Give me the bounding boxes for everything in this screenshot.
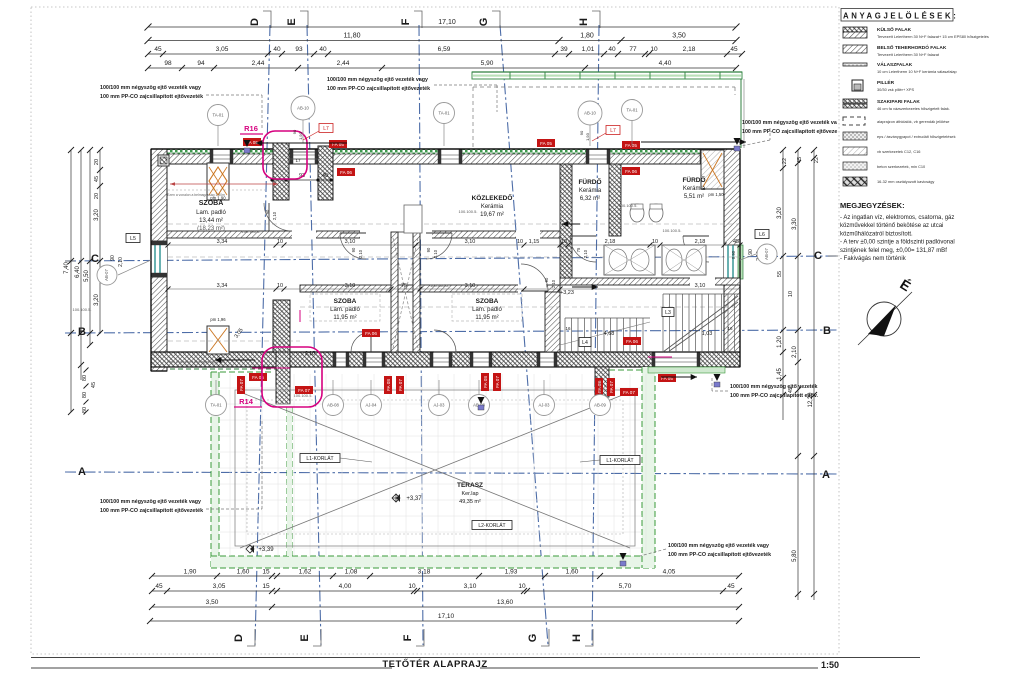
svg-text:39: 39	[560, 46, 568, 53]
svg-text:beton szerkezetek, min C10: beton szerkezetek, min C10	[877, 164, 926, 169]
svg-text:10: 10	[277, 239, 283, 245]
door arc shaft right	[426, 233, 452, 259]
svg-text:L5: L5	[130, 236, 136, 242]
svg-text:3,50: 3,50	[206, 599, 219, 606]
svg-text:közművekkel történő bekötése: közművekkel történő bekötése az utcai	[840, 223, 943, 229]
svg-text:FA 07: FA 07	[609, 381, 614, 393]
svg-text:22: 22	[814, 157, 820, 163]
svg-text:L4: L4	[582, 340, 588, 346]
grid line F	[419, 25, 423, 645]
wall pier D (R16)	[273, 143, 289, 200]
svg-text:20: 20	[94, 193, 100, 199]
magenta small marks	[299, 310, 301, 322]
svg-text:90: 90	[426, 247, 431, 252]
svg-text:5,90: 5,90	[481, 60, 494, 67]
svg-text:90: 90	[265, 209, 270, 214]
svg-text:20: 20	[94, 159, 100, 165]
door arc shaft left	[340, 233, 366, 259]
svg-text:2,10: 2,10	[583, 249, 588, 258]
lower rooms top wall	[300, 285, 560, 292]
svg-text:100.100.5.: 100.100.5.	[73, 307, 92, 312]
svg-text:+3,23: +3,23	[560, 290, 574, 296]
bottom dimension rows	[152, 575, 739, 577]
terrace left green edge	[211, 372, 219, 568]
svg-text:közműhálózatról biztosított.: közműhálózatról biztosított.	[840, 231, 913, 237]
svg-text:75: 75	[401, 283, 407, 289]
label FA 05	[537, 139, 555, 147]
svg-text:1,93: 1,93	[585, 132, 590, 141]
legend item vb szerkezetek	[843, 147, 867, 155]
terrace right green edge	[642, 367, 655, 568]
svg-text:100 mm PP-CO zajcsillapított e: 100 mm PP-CO zajcsillapított ejtővezeték	[668, 552, 771, 558]
svg-text:80: 80	[82, 392, 88, 398]
svg-text:VÁLASZFALAK: VÁLASZFALAK	[877, 61, 913, 68]
svg-text:49,35 m²: 49,35 m²	[459, 499, 481, 505]
label FA 07	[493, 373, 501, 391]
label FA 06	[362, 329, 380, 337]
legend item valaszfalak	[843, 63, 867, 66]
svg-text:Lam. padló: Lam. padló	[196, 210, 226, 216]
svg-text:100.100.5.: 100.100.5.	[430, 283, 449, 288]
roof band right edge drop	[740, 79, 742, 148]
interior dims row 2	[168, 288, 740, 290]
svg-text:vb szerkezetek C12, C16: vb szerkezetek C12, C16	[877, 149, 920, 154]
bubble TA-01	[622, 100, 643, 121]
svg-text:H: H	[578, 18, 590, 26]
bubble AB-08	[469, 395, 490, 416]
svg-text:pm 1,50: pm 1,50	[708, 192, 724, 197]
svg-text:- Az ingatlan víz, ele: - Az ingatlan víz, elektromos, csatorna,…	[840, 215, 954, 221]
svg-text:H: H	[571, 634, 583, 642]
svg-text:2,10: 2,10	[433, 249, 438, 258]
right AB-07	[740, 254, 756, 260]
bubble AB-08	[323, 395, 344, 416]
left dimension chain	[70, 150, 72, 412]
label FA 05	[622, 141, 640, 149]
svg-text:30/30 zsk pillér+ XPS: 30/30 zsk pillér+ XPS	[877, 87, 914, 92]
title bar	[31, 657, 920, 659]
pier top right with X	[701, 150, 724, 189]
svg-text:FA 06: FA 06	[365, 331, 377, 336]
bubble AB-10	[578, 101, 602, 125]
svg-text:10: 10	[277, 283, 283, 289]
bubble TA-01	[434, 103, 455, 124]
label FA 08	[384, 376, 392, 394]
label L7	[319, 124, 333, 133]
grid line E	[307, 25, 321, 645]
label FA 07	[607, 378, 615, 396]
wall pier E	[318, 146, 333, 200]
svg-text:16: 16	[727, 326, 733, 331]
svg-text:10: 10	[561, 239, 567, 245]
label L2-KORLÁT	[472, 521, 512, 530]
svg-text:90: 90	[748, 249, 754, 255]
svg-text:FA 06: FA 06	[340, 170, 352, 175]
svg-text:TETŐTÉR ALAPRAJZ: TETŐTÉR ALAPRAJZ	[382, 658, 487, 670]
label L7	[606, 126, 620, 135]
roof dashed outline	[473, 86, 735, 88]
stairs flight 1	[564, 318, 566, 352]
bubble AJ-04	[361, 395, 382, 416]
level mark +3,39	[246, 545, 254, 553]
svg-text:AB-07: AB-07	[764, 248, 769, 260]
svg-text:- A terv ±0,00 szintje: - A terv ±0,00 szintje a földszinti padl…	[840, 240, 955, 246]
svg-text:+3,37: +3,37	[406, 496, 422, 502]
svg-text:TA-01: TA-01	[438, 111, 450, 116]
svg-text:3,10: 3,10	[464, 583, 477, 590]
svg-text:L6: L6	[759, 232, 765, 238]
svg-text:3,10: 3,10	[345, 283, 356, 289]
bubble AB-09	[590, 395, 611, 416]
legend item kulso falak	[843, 27, 867, 32]
svg-text:22: 22	[782, 158, 788, 164]
svg-text:L7: L7	[323, 126, 329, 132]
svg-text:FA 08: FA 08	[386, 379, 391, 391]
terrace diagonals X	[240, 392, 630, 548]
svg-text:4,05: 4,05	[663, 569, 676, 576]
label L5	[126, 234, 140, 243]
svg-text:80: 80	[82, 375, 88, 381]
door arc bathroom1	[570, 236, 596, 262]
svg-text:L1-KORLÁT: L1-KORLÁT	[306, 455, 333, 462]
legend item beton	[843, 162, 867, 170]
stair diagonals	[663, 296, 738, 352]
bubble leaders	[217, 126, 219, 146]
svg-text:6,32 m²: 6,32 m²	[580, 196, 600, 202]
svg-text:11,80: 11,80	[344, 33, 361, 40]
label FA 05	[243, 138, 261, 146]
svg-text:Tervezett Leiertherm 30 N+F fa: Tervezett Leiertherm 30 N+F falazat	[877, 52, 940, 57]
svg-text:1,45: 1,45	[777, 368, 783, 380]
bubble TA-01	[206, 395, 227, 416]
svg-text:R14: R14	[239, 397, 254, 406]
toilets	[630, 204, 644, 222]
svg-text:3,10: 3,10	[345, 239, 356, 245]
svg-text:AB-10: AB-10	[584, 111, 596, 116]
window right wall	[724, 245, 740, 279]
svg-text:1,60: 1,60	[566, 569, 579, 576]
room label SZOBA bottom 1	[310, 294, 380, 321]
svg-text:45: 45	[91, 382, 97, 388]
svg-text:6,59: 6,59	[438, 46, 451, 53]
svg-text:100 mm PP-CO zajcsillapított e: 100 mm PP-CO zajcsillapított ejtőv.	[730, 393, 818, 399]
window opening top wall	[438, 149, 462, 164]
svg-text:G: G	[478, 18, 490, 27]
svg-text:pm 1,96: pm 1,96	[210, 317, 226, 322]
svg-text:2,10: 2,10	[551, 279, 556, 288]
label FA 07	[295, 386, 313, 394]
bath fixture furdo2	[404, 205, 422, 233]
wall between FURDO rooms	[609, 164, 621, 236]
bubble TA-01	[208, 105, 229, 126]
svg-text:45: 45	[94, 176, 100, 182]
svg-text:1,93: 1,93	[298, 131, 303, 140]
svg-text:1,15: 1,15	[529, 239, 540, 245]
svg-text:KÖZLEKEDŐ: KÖZLEKEDŐ	[472, 193, 513, 202]
svg-text:1:50: 1:50	[821, 660, 839, 670]
red line	[170, 183, 278, 185]
shaft walls (F line)	[391, 232, 398, 352]
svg-text:AJ-03: AJ-03	[434, 403, 446, 408]
svg-text:1,20: 1,20	[777, 336, 783, 348]
R14 wall pier into terrace	[273, 300, 290, 352]
interior dims row 1	[168, 244, 740, 246]
door arc lower room left (terrace door)	[351, 332, 371, 352]
svg-text:40: 40	[608, 46, 616, 53]
opening bottom wall	[430, 352, 452, 367]
svg-text:2,44: 2,44	[337, 60, 350, 67]
svg-text:1,93: 1,93	[505, 569, 518, 576]
svg-text:16-32 mm osztályozott kavicság: 16-32 mm osztályozott kavicságy	[877, 179, 934, 184]
svg-text:1,90: 1,90	[184, 569, 197, 576]
svg-text:100.100.5.: 100.100.5.	[242, 229, 261, 234]
svg-text:1,03: 1,03	[702, 331, 713, 337]
svg-text:10: 10	[652, 239, 658, 245]
svg-text:TA-01: TA-01	[626, 108, 638, 113]
svg-text:L3: L3	[665, 310, 671, 316]
legend item eps	[843, 132, 867, 140]
svg-text:AB-08: AB-08	[327, 403, 339, 408]
svg-text:1,62: 1,62	[299, 569, 312, 576]
fall direction arrows (ejtovezetek)	[244, 140, 251, 147]
label L3	[662, 308, 674, 317]
svg-text:Tervezett Leiertherm 30 N+F fa: Tervezett Leiertherm 30 N+F falazat+ 15 …	[877, 34, 989, 39]
opening bottom wall	[652, 352, 700, 367]
svg-text:Kerámia: Kerámia	[683, 186, 706, 192]
svg-text:AB-10: AB-10	[297, 106, 309, 111]
svg-text:90: 90	[110, 255, 116, 261]
svg-text:AB-07: AB-07	[104, 269, 109, 281]
svg-text:Lam. padló: Lam. padló	[330, 307, 360, 313]
svg-text:L1-KORLÁT: L1-KORLÁT	[606, 457, 633, 464]
wall between KOZLEKEDO and FURDO	[560, 164, 572, 278]
svg-text:2,10: 2,10	[358, 249, 363, 258]
label FA 06	[622, 167, 640, 175]
svg-text:10: 10	[408, 583, 416, 590]
svg-text:100/100 mm négyszög ejtő vezet: 100/100 mm négyszög ejtő vezeték vagy	[327, 77, 428, 83]
svg-text:3,34: 3,34	[217, 239, 228, 245]
exterior wall top	[151, 149, 740, 164]
door arc lower room right (terrace door)	[434, 330, 456, 352]
svg-text:- Fakivágás nem történik: - Fakivágás nem történik	[840, 256, 907, 262]
svg-text:SZOBA: SZOBA	[199, 200, 224, 207]
top dimension row 17,10	[148, 26, 736, 28]
svg-text:SZAKIPARI FALAK: SZAKIPARI FALAK	[877, 99, 920, 105]
svg-text:D: D	[249, 18, 261, 26]
grid line C	[65, 256, 838, 261]
svg-text:C: C	[814, 250, 822, 262]
svg-text:90: 90	[292, 129, 297, 134]
exterior wall right	[724, 149, 740, 367]
svg-text:3,05: 3,05	[213, 583, 226, 590]
svg-text:AJ-04: AJ-04	[366, 403, 378, 408]
svg-text:90: 90	[351, 247, 356, 252]
svg-text:B: B	[823, 325, 831, 337]
svg-text:16: 16	[565, 326, 571, 331]
svg-text:FÜRDŐ: FÜRDŐ	[682, 175, 705, 184]
svg-text:TERASZ: TERASZ	[457, 482, 483, 489]
wall right of stairs / szoba2	[545, 292, 560, 352]
svg-text:11,95 m²: 11,95 m²	[333, 315, 356, 321]
exterior wall bottom	[151, 352, 740, 367]
label FA 07	[620, 388, 638, 396]
svg-text:szintjének felel meg, ±0,00= 1: szintjének felel meg, ±0,00= 131,87 mBf	[840, 248, 947, 254]
svg-text:13,60: 13,60	[497, 599, 514, 606]
opening bottom wall	[470, 352, 492, 367]
terrace tile grid	[220, 374, 646, 556]
svg-text:1,01: 1,01	[582, 46, 595, 53]
svg-text:0,90: 0,90	[731, 250, 736, 259]
svg-text:E: E	[299, 634, 311, 641]
svg-text:7,40: 7,40	[64, 262, 70, 274]
svg-text:2,10: 2,10	[118, 257, 124, 267]
svg-text:45: 45	[730, 46, 738, 53]
legend item belso teherhordo falak	[843, 45, 867, 53]
R16 magenta highlight	[263, 131, 307, 179]
door arc szoba2	[521, 264, 548, 291]
svg-text:100/100 mm négyszög ejtő vezet: 100/100 mm négyszög ejtő vezeték vagy	[668, 543, 769, 549]
svg-text:R16: R16	[244, 124, 258, 133]
svg-text:2,10: 2,10	[792, 346, 798, 358]
bubble AJ-03	[534, 395, 555, 416]
svg-text:3,30: 3,30	[792, 218, 798, 230]
interior wall horizontal (corridor)	[167, 231, 572, 238]
lintel over window D-E	[290, 151, 318, 153]
shaft X	[393, 238, 418, 348]
svg-text:eps / ásványgyapot / extrudált: eps / ásványgyapot / extrudált hőszigete…	[877, 134, 956, 139]
svg-text:10: 10	[517, 239, 523, 245]
svg-text:3,20: 3,20	[94, 294, 100, 306]
svg-text:A: A	[78, 466, 86, 478]
svg-text:alaprajzon áthidalók, vb geren: alaprajzon áthidalók, vb gerendák jelölé…	[877, 119, 949, 124]
top dimension row detail	[148, 53, 742, 55]
svg-text:6,40: 6,40	[75, 266, 81, 278]
legend item piller	[852, 80, 863, 91]
fireplace top-left with orange X	[207, 163, 229, 200]
note leaders	[206, 94, 262, 96]
svg-text:FÜRDŐ: FÜRDŐ	[578, 177, 601, 186]
legend item athidalok	[843, 117, 865, 125]
svg-text:40: 40	[319, 46, 327, 53]
grid line A	[65, 472, 838, 474]
svg-text:FA 07: FA 07	[495, 376, 500, 388]
svg-text:100 mm PP-CO zajcsillapított e: 100 mm PP-CO zajcsillapított ejtőveze	[742, 129, 837, 135]
svg-text:90: 90	[544, 277, 549, 282]
svg-text:4,00: 4,00	[339, 583, 352, 590]
svg-text:90: 90	[579, 130, 584, 135]
svg-text:10: 10	[650, 46, 658, 53]
svg-text:L2-KORLÁT: L2-KORLÁT	[478, 522, 505, 529]
window opening top wall	[210, 149, 233, 164]
svg-text:3,20: 3,20	[777, 207, 783, 219]
opening bottom wall	[333, 352, 349, 367]
stairs flight 2	[662, 294, 664, 352]
sink counter 1	[604, 245, 655, 275]
label FA 07	[396, 376, 404, 394]
dashed guides	[168, 189, 265, 191]
svg-text:5,80: 5,80	[792, 550, 798, 562]
label L6	[755, 230, 769, 239]
svg-text:2,18: 2,18	[605, 239, 616, 245]
svg-text:45: 45	[154, 46, 162, 53]
svg-text:46 cm fa vázszerkezetes hőszig: 46 cm fa vázszerkezetes hőszigetelt fala…	[877, 106, 950, 111]
fireplace bottom-left with orange X	[207, 326, 229, 354]
label FA 06	[337, 168, 355, 176]
green sill below bottom wall left part	[170, 368, 290, 370]
label FA 07	[237, 376, 245, 394]
svg-text:FA 07: FA 07	[398, 379, 403, 391]
svg-text:FA 05: FA 05	[625, 143, 637, 148]
exterior wall left	[151, 149, 167, 371]
svg-text:SZOBA: SZOBA	[334, 298, 357, 305]
svg-text:(18,23 m²): (18,23 m²)	[197, 226, 225, 232]
svg-text:2,44: 2,44	[252, 60, 265, 67]
sink counter 2	[662, 245, 706, 275]
grid line H	[592, 25, 599, 645]
roof band top right (green strip)	[472, 72, 742, 79]
svg-text:13,44 m²: 13,44 m²	[199, 218, 223, 224]
svg-text:17,10: 17,10	[438, 613, 455, 620]
svg-text:2,18: 2,18	[683, 46, 696, 53]
svg-text:3,10: 3,10	[465, 239, 476, 245]
label L4	[579, 338, 591, 347]
window opening top wall	[700, 149, 724, 164]
page dotted border	[31, 7, 839, 654]
svg-text:Lam. padló: Lam. padló	[472, 307, 502, 313]
svg-text:TA-01: TA-01	[212, 113, 224, 118]
grid line D	[255, 25, 270, 645]
svg-text:3,20: 3,20	[94, 209, 100, 221]
svg-text:3,18: 3,18	[418, 569, 431, 576]
heavy outlines	[151, 148, 740, 150]
svg-text:Ker.lap: Ker.lap	[461, 491, 478, 497]
window opening top wall	[290, 149, 318, 164]
svg-text:100.100.5.: 100.100.5.	[619, 203, 638, 208]
svg-text:100 mm PP-CO zajcsillapított e: 100 mm PP-CO zajcsillapított ejtővezeték	[100, 508, 203, 514]
label L1-KORLÁT	[300, 454, 340, 463]
door arc corridor to left room	[264, 203, 292, 231]
bubble AJ-03	[429, 395, 450, 416]
label FA 08	[595, 378, 603, 396]
svg-text:4,68: 4,68	[604, 331, 615, 337]
window opening top wall	[586, 149, 610, 164]
svg-text:Kerámia: Kerámia	[579, 188, 602, 194]
svg-text:45: 45	[155, 583, 163, 590]
svg-text:2,10: 2,10	[272, 211, 277, 220]
svg-text:+3,39: +3,39	[258, 547, 274, 553]
right dimension chain	[782, 150, 784, 420]
top dimension row 98/94/2,44	[148, 67, 736, 69]
svg-text:80: 80	[82, 407, 88, 413]
svg-text:100/100 mm négyszög ejtő vezet: 100/100 mm négyszög ejtő vezeték	[730, 384, 817, 390]
bubble AB-10	[291, 96, 315, 120]
svg-text:FA 07: FA 07	[623, 390, 635, 395]
svg-text:FA 06: FA 06	[625, 169, 637, 174]
svg-text:100.100.5.: 100.100.5.	[459, 209, 478, 214]
svg-text:100/100 mm négyszög ejtő vezet: 100/100 mm négyszög ejtő vezeték vagy	[100, 499, 201, 505]
svg-text:FA 05: FA 05	[540, 141, 552, 146]
window left wall	[151, 241, 167, 277]
green connector below building left	[211, 371, 273, 373]
svg-text:KÜLSŐ FALAK: KÜLSŐ FALAK	[877, 26, 912, 33]
svg-text:2,18: 2,18	[695, 239, 706, 245]
svg-text:17,10: 17,10	[438, 19, 456, 26]
label FA 05	[658, 374, 676, 382]
left AB-07	[118, 260, 151, 275]
svg-text:94: 94	[197, 60, 205, 67]
green downpipe lines in terrace	[286, 407, 288, 556]
duct arrows	[256, 142, 347, 144]
